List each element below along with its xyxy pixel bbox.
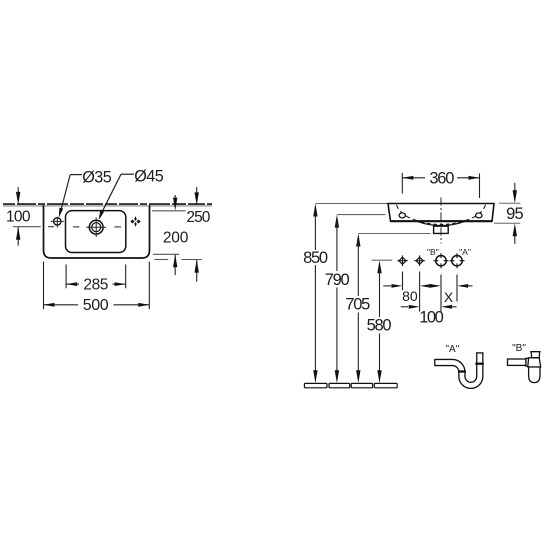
svg-text:"B": "B": [427, 247, 439, 257]
ref line 790 (tap hole level): [337, 214, 386, 216]
text 580: [366, 316, 394, 334]
dimension 250 (wall to basin front): [195, 187, 199, 282]
floor slab 4: [374, 383, 397, 387]
svg-text:100: 100: [6, 209, 31, 226]
extension lines below mounting holes: [403, 272, 458, 312]
svg-text:360: 360: [429, 170, 454, 188]
bowl underside arcs: [417, 221, 465, 225]
mounting hole diamond 2: [414, 255, 425, 266]
svg-text:"A": "A": [459, 247, 471, 257]
svg-text:"A": "A": [446, 344, 460, 355]
dimension 360: [402, 173, 479, 198]
inner bowl outline (plan): [66, 211, 126, 253]
centerline dashes through drain: [73, 226, 121, 228]
mounting hole diamond 1: [397, 255, 408, 266]
svg-text:Ø35: Ø35: [82, 168, 112, 186]
dimension line 850: [313, 204, 317, 384]
svg-text:250: 250: [186, 209, 210, 226]
mounting hole circle B: [434, 253, 449, 268]
text 790: [324, 271, 352, 289]
svg-text:100: 100: [419, 308, 444, 326]
dimension 95: [494, 183, 520, 244]
extension line (inner top edge, right): [152, 210, 186, 212]
dimension line 580: [377, 260, 381, 383]
svg-text:705: 705: [345, 296, 370, 314]
ref line 850 (basin top): [315, 203, 387, 205]
vertical centerline (elevation): [440, 198, 442, 244]
svg-text:200: 200: [163, 229, 189, 246]
svg-text:850: 850: [303, 249, 328, 267]
trap B (bottle trap): [508, 352, 541, 383]
mounting hole circle A: [450, 253, 465, 268]
dimension line 705: [356, 234, 360, 384]
svg-text:X: X: [444, 289, 454, 305]
text 705: [345, 296, 373, 314]
extension line (basin front edge, right): [154, 259, 201, 261]
svg-text:"B": "B": [512, 343, 526, 354]
dimension 500: [44, 262, 150, 310]
dimension 285: [66, 264, 126, 288]
faucet hole circle (Ø35): [48, 217, 64, 228]
drain stub (elevation): [434, 226, 449, 233]
dimension 200 (inner bowl depth): [173, 195, 177, 275]
floor slab 3: [351, 383, 372, 387]
wall line (plan view): [3, 204, 212, 206]
svg-text:500: 500: [83, 297, 109, 314]
svg-text:95: 95: [506, 205, 524, 223]
dimension 80 arrows: [383, 284, 441, 288]
svg-text:790: 790: [325, 271, 350, 289]
basin elevation body: [388, 204, 494, 222]
text 850: [302, 249, 330, 267]
washbasin outer outline (plan): [44, 205, 150, 258]
leader line Ø45: [99, 174, 134, 220]
trap A (P-trap): [435, 353, 484, 385]
svg-text:580: 580: [367, 316, 392, 334]
svg-text:285: 285: [83, 276, 108, 293]
svg-text:Ø45: Ø45: [134, 168, 164, 186]
dimension line 790: [335, 215, 339, 384]
svg-text:80: 80: [402, 288, 418, 304]
dimension 100 arrows: [401, 305, 457, 309]
extension line (inner bottom edge, right): [153, 253, 179, 255]
dimension X right arrow: [457, 284, 472, 288]
leader line Ø35: [59, 175, 82, 218]
ref line 705 (drain stub level): [358, 233, 430, 235]
tap hole left (elevation): [399, 213, 405, 218]
ref line 580 (mounting hole level): [372, 259, 393, 261]
floor slab 1: [304, 383, 327, 387]
floor slab 2: [329, 383, 350, 387]
tap hole right (elevation): [476, 213, 482, 218]
tap punch mark (right cross symbol): [130, 216, 140, 227]
drain hole circles (Ø45): [86, 217, 106, 237]
dimension 100 (wall to drain center): [13, 187, 41, 246]
hidden bowl outline (dashed): [397, 205, 420, 221]
